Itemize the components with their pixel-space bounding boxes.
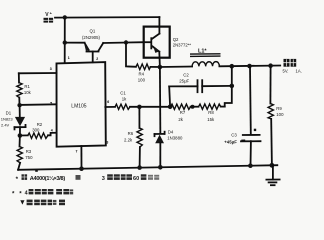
svg-text:C1: C1 xyxy=(120,91,126,96)
wire L1 to output xyxy=(219,65,280,68)
node junction ground symbol xyxy=(270,163,275,168)
wire feedback drop from output node xyxy=(225,66,232,106)
node junction R6 ground xyxy=(137,165,142,170)
resistor R4 xyxy=(136,64,151,70)
svg-text:R3: R3 xyxy=(26,149,32,154)
svg-text:R8: R8 xyxy=(208,110,214,115)
svg-text:Q1: Q1 xyxy=(90,29,96,34)
node junction emitter/R4 xyxy=(158,65,163,70)
wire ground rail xyxy=(18,165,277,170)
svg-text:2.4V: 2.4V xyxy=(1,122,10,127)
diode D4 xyxy=(155,132,165,168)
svg-text:25μF: 25μF xyxy=(179,78,189,83)
inductor L1 xyxy=(190,54,221,67)
wire Q1 collector to Q2 base xyxy=(103,41,144,44)
svg-text:R6: R6 xyxy=(128,131,134,136)
svg-text:3: 3 xyxy=(102,176,105,182)
svg-text:4: 4 xyxy=(25,190,28,196)
node junction R9 top xyxy=(268,63,273,68)
diode D1 zener xyxy=(15,105,26,135)
transistor Q2 xyxy=(144,17,160,67)
svg-text:1: 1 xyxy=(68,56,70,60)
wire IC left pin top xyxy=(19,72,57,74)
svg-text:7: 7 xyxy=(76,150,78,154)
svg-text:R1: R1 xyxy=(24,84,30,89)
node junction zener top xyxy=(17,103,21,107)
node junction C3 top xyxy=(247,64,252,69)
node junction D4 ground xyxy=(158,165,163,170)
svg-text:6: 6 xyxy=(107,100,109,104)
svg-text:A4000(1¼×3/8): A4000(1¼×3/8) xyxy=(30,175,66,182)
node junction C2 right xyxy=(230,84,235,89)
node junction R2 xyxy=(18,133,23,138)
svg-text:15k: 15k xyxy=(207,117,215,122)
wire R1 to node xyxy=(18,98,20,105)
svg-text:1N3880: 1N3880 xyxy=(167,136,183,141)
node junction C2 tap xyxy=(168,105,173,110)
wire emitter to L1 xyxy=(160,66,192,69)
wire R4 riser xyxy=(126,43,136,67)
svg-text:2: 2 xyxy=(96,57,98,61)
svg-text:100: 100 xyxy=(138,77,146,82)
svg-text:D1: D1 xyxy=(6,110,12,115)
wire R6 to ground rail xyxy=(139,147,141,168)
note footnote line 1 xyxy=(16,174,160,183)
resistor R5 xyxy=(115,104,130,109)
svg-text:5V.: 5V. xyxy=(283,69,289,74)
node junction divider mid xyxy=(191,105,195,109)
wire divider rail from IC pin xyxy=(105,106,115,108)
node V+ input label xyxy=(44,10,54,22)
svg-text:1N823: 1N823 xyxy=(1,117,14,122)
svg-text:LM105: LM105 xyxy=(71,104,87,110)
resistor R9 xyxy=(268,66,273,166)
svg-text:2.2k: 2.2k xyxy=(124,138,133,143)
ground xyxy=(266,165,279,185)
node junction C3 ground xyxy=(248,163,253,168)
svg-text:3: 3 xyxy=(50,67,52,71)
resistor R7 xyxy=(171,104,191,109)
wire V+ rail xyxy=(55,16,159,19)
capacitor C3 xyxy=(241,66,261,166)
node junction R4 top xyxy=(124,40,128,44)
wire R8 to drop xyxy=(221,106,225,108)
svg-text:C2: C2 xyxy=(183,72,189,77)
wire R5 to R7 xyxy=(130,106,171,108)
svg-text:2N3772**: 2N3772** xyxy=(173,43,192,48)
polarity plus C3 xyxy=(254,129,256,131)
node junction V+ xyxy=(63,15,67,19)
artifact tick on rail xyxy=(35,170,38,172)
wire R6 branch xyxy=(138,107,140,128)
node junction IC ground xyxy=(79,166,84,171)
wire left column to R1 xyxy=(18,73,20,82)
svg-text:R9: R9 xyxy=(276,106,282,111)
wire IC left pin mid xyxy=(20,103,57,106)
svg-text:D4: D4 xyxy=(168,129,174,134)
svg-text:10k: 10k xyxy=(24,90,32,95)
resistor R8 xyxy=(199,104,221,109)
capacitor C2 xyxy=(169,80,232,107)
wire to Q1 emitter xyxy=(65,42,85,44)
note footnote line 3 xyxy=(20,200,65,206)
node junction R6 top xyxy=(137,105,142,110)
wire R4 to emitter node xyxy=(151,66,160,68)
transistor Q1 xyxy=(84,43,103,62)
svg-text:+45μF: +45μF xyxy=(224,140,237,145)
svg-text:1A.: 1A. xyxy=(296,69,302,74)
resistor R3 xyxy=(17,136,22,170)
wire IC ground pin xyxy=(80,146,82,169)
resistor R1 xyxy=(17,83,22,98)
svg-text:3: 3 xyxy=(106,141,108,145)
resistor R6 xyxy=(137,128,142,147)
wire R7 to R8 xyxy=(191,106,199,108)
svg-text:100: 100 xyxy=(276,112,284,117)
svg-text:R7: R7 xyxy=(180,110,186,115)
svg-text:C3: C3 xyxy=(231,133,237,138)
node output label xyxy=(284,59,297,67)
op-amp U1 LM105 regulator box xyxy=(57,62,106,147)
svg-text:R4: R4 xyxy=(139,72,145,77)
transistor Q2 heatsink box xyxy=(144,27,170,58)
wire switch node down xyxy=(159,67,161,133)
svg-text:(2N2905): (2N2905) xyxy=(82,35,100,40)
wire V+ down to IC pin 1 xyxy=(64,17,66,62)
node junction emitter branch xyxy=(63,40,67,44)
resistor R2 xyxy=(20,133,57,139)
note footnote line 2 xyxy=(12,189,74,198)
svg-text:60: 60 xyxy=(133,176,139,182)
svg-text:Q2: Q2 xyxy=(173,37,179,42)
svg-text:L1*: L1* xyxy=(198,49,207,55)
svg-text:300: 300 xyxy=(32,127,40,132)
node junction output A xyxy=(230,64,235,69)
svg-text:750: 750 xyxy=(25,155,33,160)
